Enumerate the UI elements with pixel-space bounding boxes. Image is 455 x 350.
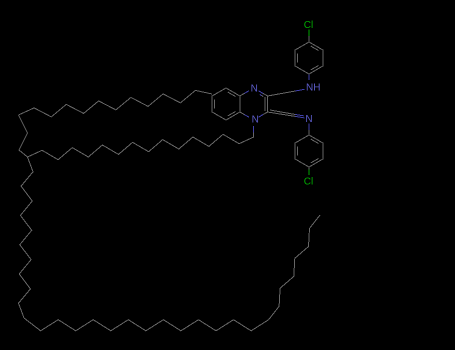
bond N1-CH2 (N half) [253,126,255,132]
bond C3-N1 (N half) [259,115,264,118]
bond N1-C8a (N half) [244,115,249,118]
quinoxaline benzo ring [212,88,240,120]
bottom 4-chlorophenyl ring [295,135,323,167]
bottom ring aromatic inner line [311,159,319,164]
top ring aromatic inner line [297,54,299,63]
top ring aromatic inner line [311,66,319,71]
bond N4=C2 inner line (C half) [262,96,264,97]
alkyl chain bottom zigzag [24,318,269,331]
bond ring-Cl bottom (green half) [308,170,310,176]
bond N1-C8a (C half) [240,112,245,115]
svg-text:N: N [305,114,312,125]
alkyl chain upper zigzag [19,90,213,117]
bond N-phenyl(bottom) (N half) [308,124,310,130]
benzo ring aromatic inner line [228,112,236,117]
svg-text:NH: NH [306,83,320,94]
bond C3=N imine main (C half) [268,112,296,116]
alkyl chain left descending zigzag [19,157,34,318]
bond C4a-N4 (C half) [240,93,245,96]
bond C3=N imine main (N half) [295,116,304,118]
bond ring-Cl top (green half) [308,30,310,37]
bottom ring aromatic inner line [311,139,319,144]
bottom ring aromatic inner line [297,147,299,156]
bond C2-NH (C half) [268,91,296,96]
bond C2-C3 [267,96,269,112]
svg-text:N: N [251,84,258,95]
bond C3=N imine second line (N half) [295,115,304,116]
bond C3-N1 (C half) [263,112,268,115]
bond N4=C2 main (C half) [263,93,268,96]
bond N4=C2 inner line (N half) [260,95,262,96]
svg-text:N: N [252,114,259,125]
bond NH-phenyl(top) [308,75,310,81]
bond N4=C2 main (N half) [259,91,264,94]
bond ring-Cl top (gray half) [308,36,310,42]
bond C2=C3 inner line [264,97,266,111]
alkyl chain far-left connector [19,115,28,157]
top ring aromatic inner line [311,46,319,51]
svg-text:Cl: Cl [304,177,313,188]
bond N1-CH2 (C half) [253,132,255,137]
bond C3=N imine second line (C half) [270,110,295,115]
top 4-chlorophenyl ring [295,42,323,74]
bond C2-NH (N half) [295,89,304,91]
bond ring-Cl bottom (gray half) [308,167,310,170]
bond N-phenyl(bottom) (C half) [308,130,310,135]
bond C4a-N4 (N half) [244,91,249,94]
alkyl chain middle zigzag [28,134,254,159]
alkyl chain right ascending zigzag [269,215,320,320]
benzo ring aromatic inner line [228,92,236,97]
svg-text:Cl: Cl [304,20,313,31]
benzo ring aromatic inner line [214,100,216,109]
